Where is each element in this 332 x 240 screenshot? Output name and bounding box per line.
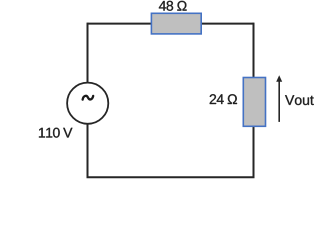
- node label Vout: [285, 95, 314, 105]
- resistor R2 body (24 ohm): [243, 78, 265, 127]
- wire bottom segment: [87, 176, 255, 178]
- Vout arrow head: [276, 75, 282, 82]
- resistor R2 value label 24 Ω: [210, 94, 237, 104]
- voltage source value label 110 V: [39, 128, 72, 138]
- wire right upper segment: [253, 23, 255, 78]
- resistor R1 value label 48 Ω: [159, 1, 187, 11]
- wire top-right segment: [201, 23, 254, 25]
- wire top-left segment: [88, 23, 153, 25]
- Vout arrow shaft: [278, 81, 280, 122]
- wire left upper segment: [87, 23, 89, 83]
- wire left lower segment: [87, 124, 89, 178]
- resistor R1 body (48 ohm): [151, 13, 201, 34]
- wire right lower segment: [253, 126, 255, 177]
- AC voltage source V1 circle: [67, 83, 108, 124]
- AC voltage source V1 sine symbol: [83, 96, 94, 100]
